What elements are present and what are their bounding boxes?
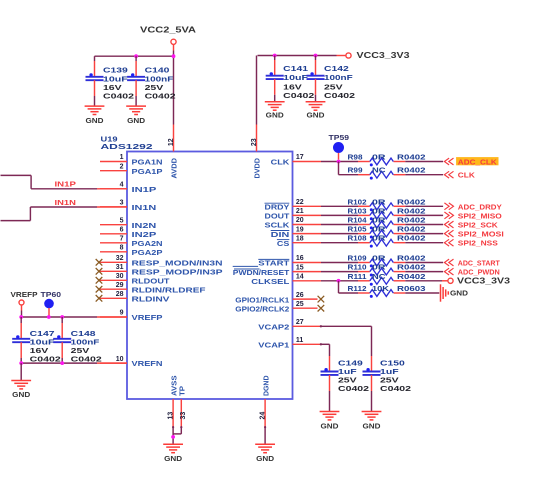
pin 13 AVSS <box>167 375 178 427</box>
net port SPI2_MISO <box>444 211 502 220</box>
pin 31 RESP_MODP/IN3P <box>96 264 223 276</box>
net port ADC_CLK (highlighted) <box>444 157 498 166</box>
pin 16 START <box>233 255 321 268</box>
pin 12 AVDD <box>168 125 178 179</box>
svg-text:C140: C140 <box>145 66 170 75</box>
svg-text:CLK: CLK <box>271 158 290 167</box>
svg-text:0R: 0R <box>372 153 386 162</box>
junction VREFP corner <box>19 315 23 319</box>
junction at VCC2_5VA corner <box>172 54 176 58</box>
junction TP59/R99 tap <box>337 160 341 164</box>
wire TP pin33 jog <box>173 426 182 434</box>
svg-text:100nF: 100nF <box>324 73 353 82</box>
pin 32 RESP_MODN/IN3N <box>96 255 223 267</box>
pin 22 DRDY <box>265 199 322 212</box>
capacitor C142 100nF <box>307 56 356 102</box>
svg-text:R0402: R0402 <box>397 263 426 272</box>
svg-text:C150: C150 <box>380 358 405 367</box>
svg-text:C0402: C0402 <box>324 91 355 100</box>
power symbol VREFP <box>11 290 38 317</box>
wire R104 to SPI2_SCK port <box>405 224 443 226</box>
resistor R99 NC R0402 <box>348 166 426 180</box>
net port SPI2_MOSI <box>444 230 503 239</box>
svg-text:GND: GND <box>12 390 30 399</box>
svg-text:AVDD: AVDD <box>170 158 179 179</box>
svg-text:PGA1N: PGA1N <box>132 158 163 167</box>
svg-text:DRDY: DRDY <box>265 203 290 212</box>
svg-text:PGA2P: PGA2P <box>132 248 163 257</box>
svg-text:19: 19 <box>296 226 304 233</box>
svg-text:9: 9 <box>120 310 124 317</box>
svg-text:R0402: R0402 <box>397 197 426 206</box>
wire C147 to ground <box>20 363 22 380</box>
svg-text:0R: 0R <box>372 197 386 206</box>
wire R109 to ADC_START port <box>405 262 443 264</box>
capacitor C150 1uF <box>363 356 412 412</box>
wire R102 to ADC_DRDY port <box>405 205 443 207</box>
svg-text:C0402: C0402 <box>380 384 411 393</box>
ground below DGND <box>255 444 275 452</box>
pin 20 SCLK <box>265 217 322 230</box>
svg-text:R0402: R0402 <box>397 166 426 175</box>
pin 26 GPIO1/RCLK1 <box>235 292 324 305</box>
svg-text:VREFP: VREFP <box>132 313 163 322</box>
svg-text:IN2N: IN2N <box>132 221 157 230</box>
svg-text:VREFN: VREFN <box>132 359 163 368</box>
test point TP59 <box>329 133 350 160</box>
svg-text:GPIO2/RCLK2: GPIO2/RCLK2 <box>235 304 289 313</box>
svg-text:R111: R111 <box>348 272 367 281</box>
svg-text:14: 14 <box>296 274 304 281</box>
wire DGND pin24 down <box>264 427 266 444</box>
svg-text:ADC_CLK: ADC_CLK <box>458 158 498 167</box>
junction AVSS/TP <box>171 435 175 439</box>
svg-text:R108: R108 <box>348 234 367 243</box>
svg-text:C148: C148 <box>71 329 96 338</box>
svg-text:30: 30 <box>116 273 124 280</box>
svg-text:R109: R109 <box>348 254 367 263</box>
svg-text:TP60: TP60 <box>41 290 62 299</box>
svg-text:RESP_MODP/IN3P: RESP_MODP/IN3P <box>132 267 223 276</box>
pin 9 VREFP <box>100 310 163 322</box>
pin 30 RLDOUT <box>96 273 170 285</box>
wire pin to R109 <box>321 262 358 264</box>
wire pin to R105 <box>321 233 358 235</box>
wire AVSS pin13 down <box>172 427 174 444</box>
pin 24 DGND <box>260 376 271 428</box>
svg-text:CLK: CLK <box>458 171 476 180</box>
wire R105 to SPI2_MOSI port <box>405 233 443 235</box>
wire VCAP1 pin11 to C149 <box>321 343 330 345</box>
svg-text:20: 20 <box>296 217 304 224</box>
svg-text:24: 24 <box>260 412 267 420</box>
wire VCC3_3V3 to DVDD <box>256 56 258 125</box>
svg-text:SCLK: SCLK <box>265 221 291 230</box>
svg-text:0R: 0R <box>372 263 386 272</box>
power symbol VCC2_5VA <box>140 25 196 50</box>
junction CLKSEL/R112 tap <box>337 279 341 283</box>
resistor R104 0R R0402 <box>348 216 426 230</box>
pin 15 PWDN/RESET <box>233 264 321 277</box>
svg-text:RLDOUT: RLDOUT <box>132 276 171 285</box>
net port ADC_PWDN <box>444 268 499 277</box>
capacitor C149 1uF <box>321 356 370 412</box>
pin 7 PGA2N <box>100 236 163 248</box>
junction at C141 tap <box>273 54 277 58</box>
resistor R108 0R R0402 <box>348 234 426 248</box>
junction at C142 tap <box>314 54 318 58</box>
junction C148 top tap <box>60 315 64 319</box>
svg-text:CLKSEL: CLKSEL <box>251 277 290 286</box>
resistor R105 0R R0402 <box>348 225 426 239</box>
svg-text:4: 4 <box>120 182 124 189</box>
svg-text:SPI2_MOSI: SPI2_MOSI <box>458 230 504 239</box>
svg-text:GND: GND <box>266 111 284 120</box>
pin 33 TP <box>177 386 187 427</box>
svg-text:0R: 0R <box>372 225 386 234</box>
resistor R111 NC R0402 <box>348 272 426 286</box>
svg-text:27: 27 <box>296 319 304 326</box>
svg-text:IN2P: IN2P <box>132 230 157 239</box>
wire R99 to CLK port <box>405 174 443 176</box>
pin 2 PGA1P <box>100 163 163 175</box>
net port ADC_START <box>444 259 500 268</box>
svg-text:R0402: R0402 <box>397 272 426 281</box>
svg-text:R0603: R0603 <box>397 284 426 293</box>
ground below C149 <box>320 412 340 420</box>
pin 1 PGA1N <box>100 154 163 166</box>
wire R98 to ADC_CLK port <box>405 161 443 163</box>
pin 6 IN2P <box>100 227 156 239</box>
svg-text:R0402: R0402 <box>397 225 426 234</box>
svg-text:VCAP1: VCAP1 <box>258 341 289 350</box>
svg-text:C0402: C0402 <box>30 355 61 364</box>
capacitor C141 10uF <box>266 56 315 102</box>
junction TP60 tap <box>47 315 51 319</box>
IC U19 ADS1292 body <box>127 152 293 400</box>
svg-text:R104: R104 <box>348 216 368 225</box>
wire CLK pin17 to R98 <box>321 161 358 163</box>
svg-text:R99: R99 <box>348 166 363 175</box>
junction at C140 tap <box>134 54 138 58</box>
svg-text:C0402: C0402 <box>338 384 369 393</box>
svg-text:33: 33 <box>180 412 187 420</box>
svg-text:8: 8 <box>120 245 124 252</box>
svg-text:C0402: C0402 <box>103 91 134 100</box>
svg-text:GND: GND <box>363 422 381 431</box>
net port SPI2_SCK <box>444 221 498 230</box>
svg-text:R102: R102 <box>348 197 367 206</box>
ground below C142 <box>306 102 326 110</box>
svg-text:0R: 0R <box>372 234 386 243</box>
ground below C139 <box>85 106 105 114</box>
junction C148 bottom <box>60 361 64 365</box>
svg-text:2: 2 <box>120 163 124 170</box>
pin 21 DOUT <box>265 208 322 221</box>
resistor R102 0R R0402 <box>348 197 426 211</box>
wire R103 to SPI2_MISO port <box>405 214 443 216</box>
wire VCC2_5VA horizontal bus <box>95 55 174 57</box>
wire VCAP2 pin27 to C150 <box>321 325 372 327</box>
svg-text:R0402: R0402 <box>397 216 426 225</box>
svg-text:17: 17 <box>296 154 304 161</box>
pin 14 CLKSEL <box>251 274 321 287</box>
wire IN1N from left edge <box>1 207 128 221</box>
svg-text:GND: GND <box>164 454 182 463</box>
pin 10 VREFN <box>100 356 163 368</box>
net port CLK <box>444 171 475 180</box>
svg-text:10: 10 <box>116 356 124 363</box>
wire VREFN row to pin 10 <box>21 362 97 364</box>
svg-text:CS: CS <box>277 239 289 248</box>
svg-text:22: 22 <box>296 199 304 206</box>
svg-text:PGA1P: PGA1P <box>132 167 163 176</box>
junction C147 bottom <box>19 361 23 365</box>
pin 3 IN1N <box>100 200 156 212</box>
svg-text:VCC3_3V3: VCC3_3V3 <box>357 51 411 60</box>
pin 11 VCAP1 <box>258 337 321 350</box>
svg-text:16: 16 <box>296 255 304 262</box>
wire R108 to SPI2_NSS port <box>405 242 443 244</box>
wire IN1P from left edge <box>1 175 128 188</box>
svg-text:7: 7 <box>120 236 124 243</box>
svg-text:SPI2_NSS: SPI2_NSS <box>458 239 498 248</box>
svg-text:RLDIN/RLDREF: RLDIN/RLDREF <box>132 285 207 294</box>
svg-text:GND: GND <box>450 289 468 298</box>
pin 28 RLDINV <box>96 291 170 303</box>
wire pin to R104 <box>321 224 358 226</box>
svg-text:0R: 0R <box>372 216 386 225</box>
wire pin to R108 <box>321 242 358 244</box>
svg-text:25: 25 <box>296 301 304 308</box>
svg-text:1: 1 <box>120 154 124 161</box>
svg-text:DIN: DIN <box>271 230 290 239</box>
wire R111 to VCC3_3V3 <box>405 280 442 282</box>
svg-text:6: 6 <box>120 227 124 234</box>
svg-text:IN1P: IN1P <box>55 180 77 189</box>
svg-text:13: 13 <box>167 412 174 420</box>
resistor R110 0R R0402 <box>348 263 426 277</box>
pin 18 CS <box>277 235 321 248</box>
svg-text:R0402: R0402 <box>397 254 426 263</box>
svg-text:C0402: C0402 <box>71 355 102 364</box>
svg-text:VCC2_5VA: VCC2_5VA <box>140 25 196 34</box>
svg-text:IN1N: IN1N <box>132 203 157 212</box>
svg-text:IN1P: IN1P <box>132 185 157 194</box>
wire R112 to ground <box>405 292 439 294</box>
resistor R112 10K R0603 <box>348 284 426 298</box>
wire CLKSEL pin14 to R111 <box>321 280 358 282</box>
svg-text:29: 29 <box>116 282 124 289</box>
ground below AVSS <box>163 444 183 452</box>
test point TP60 <box>41 290 62 317</box>
pin 17 CLK <box>271 154 321 167</box>
pin 27 VCAP2 <box>258 319 321 332</box>
svg-text:VCC3_3V3: VCC3_3V3 <box>457 276 511 285</box>
svg-text:32: 32 <box>116 255 124 262</box>
svg-text:DVDD: DVDD <box>253 158 262 179</box>
svg-text:RESP_MODN/IN3N: RESP_MODN/IN3N <box>132 258 223 267</box>
ground below C141 <box>265 102 285 110</box>
svg-text:ADC_START: ADC_START <box>458 259 501 268</box>
svg-text:C147: C147 <box>30 329 55 338</box>
svg-text:GND: GND <box>86 116 104 125</box>
net port ADC_DRDY <box>444 202 502 211</box>
svg-text:10uF: 10uF <box>283 73 308 82</box>
svg-text:RLDINV: RLDINV <box>132 294 170 303</box>
capacitor C147 10uF <box>12 317 61 364</box>
svg-text:DGND: DGND <box>261 376 270 397</box>
wire pin to R110 <box>321 271 358 273</box>
svg-text:PGA2N: PGA2N <box>132 239 163 248</box>
svg-text:C0402: C0402 <box>283 91 314 100</box>
wire pin to R103 <box>321 214 358 216</box>
svg-text:ADS1292: ADS1292 <box>101 142 153 151</box>
power symbol VCC3_3V3 top <box>346 51 410 60</box>
resistor R103 0R R0402 <box>348 206 426 220</box>
ground below C147 <box>11 381 31 389</box>
svg-text:C149: C149 <box>338 358 363 367</box>
ground below C150 <box>362 412 382 420</box>
svg-text:15: 15 <box>296 264 304 271</box>
svg-text:R103: R103 <box>348 206 367 215</box>
wire VREFP row to pin 9 <box>21 316 97 318</box>
svg-text:C141: C141 <box>283 64 308 73</box>
svg-text:VREFP: VREFP <box>11 290 38 299</box>
svg-text:10K: 10K <box>372 284 390 293</box>
pin 4 IN1P <box>100 182 156 194</box>
wire down to R112 row <box>338 281 340 293</box>
ground below C140 <box>126 106 146 114</box>
svg-text:3: 3 <box>120 200 124 207</box>
svg-text:C0402: C0402 <box>145 91 176 100</box>
svg-text:26: 26 <box>296 292 304 299</box>
svg-text:ADC_PWDN: ADC_PWDN <box>458 268 500 277</box>
svg-text:GND: GND <box>307 111 325 120</box>
svg-text:R105: R105 <box>348 225 367 234</box>
resistor R109 0R R0402 <box>348 254 426 268</box>
wire VCC2_5VA vertical to AVDD <box>173 51 175 57</box>
svg-text:SPI2_MISO: SPI2_MISO <box>458 211 502 220</box>
svg-text:C139: C139 <box>103 66 128 75</box>
svg-text:0R: 0R <box>372 206 386 215</box>
svg-text:C142: C142 <box>324 64 349 73</box>
svg-text:21: 21 <box>296 208 304 215</box>
svg-text:NC: NC <box>372 272 386 281</box>
svg-text:TP: TP <box>177 386 186 396</box>
pin 5 IN2N <box>100 217 156 229</box>
svg-text:23: 23 <box>251 138 258 146</box>
pin 29 RLDIN/RLDREF <box>96 282 206 294</box>
net port SPI2_NSS <box>444 239 498 248</box>
wire VCC3_3V3 horizontal bus <box>258 55 337 57</box>
svg-text:VCAP2: VCAP2 <box>258 323 289 332</box>
svg-text:R0402: R0402 <box>397 234 426 243</box>
pin 19 DIN <box>271 226 321 239</box>
svg-text:GND: GND <box>321 422 339 431</box>
svg-text:11: 11 <box>296 337 304 344</box>
svg-text:R112: R112 <box>348 284 367 293</box>
capacitor C140 100nF <box>127 56 176 106</box>
svg-text:GND: GND <box>127 116 145 125</box>
svg-text:R0402: R0402 <box>397 153 426 162</box>
pin 25 GPIO2/RCLK2 <box>235 301 324 314</box>
capacitor C139 10uF <box>86 56 135 106</box>
svg-text:28: 28 <box>116 291 124 298</box>
svg-text:SPI2_SCK: SPI2_SCK <box>458 221 499 230</box>
wire down to R99 row <box>338 162 340 175</box>
ground right of R112 <box>441 284 469 301</box>
svg-text:DOUT: DOUT <box>265 212 290 221</box>
svg-text:IN1N: IN1N <box>55 198 76 207</box>
wire pin to R102 <box>321 205 358 207</box>
svg-text:ADC_DRDY: ADC_DRDY <box>458 202 502 211</box>
svg-text:TP59: TP59 <box>329 133 350 142</box>
svg-text:GND: GND <box>256 454 274 463</box>
capacitor C148 100nF <box>53 317 101 364</box>
svg-text:5: 5 <box>120 217 124 224</box>
svg-text:NC: NC <box>372 166 386 175</box>
svg-text:18: 18 <box>296 235 304 242</box>
wire R110 to ADC_PWDN port <box>405 271 443 273</box>
pin 23 DVDD <box>251 125 261 179</box>
svg-text:GPIO1/RCLK1: GPIO1/RCLK1 <box>235 295 289 304</box>
resistor R98 0R R0402 <box>348 153 426 167</box>
power symbol VCC3_3V3 right <box>448 276 511 285</box>
pin 8 PGA2P <box>100 245 163 257</box>
svg-text:START: START <box>258 259 290 268</box>
svg-text:0R: 0R <box>372 254 386 263</box>
svg-text:R98: R98 <box>348 153 363 162</box>
svg-text:12: 12 <box>168 138 175 146</box>
svg-text:R110: R110 <box>348 263 367 272</box>
svg-text:R0402: R0402 <box>397 206 426 215</box>
svg-text:31: 31 <box>116 264 124 271</box>
